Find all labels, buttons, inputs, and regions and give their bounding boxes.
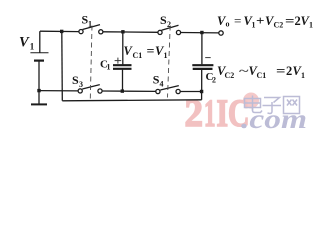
svg-text:.com: .com <box>241 104 307 134</box>
svg-text:S: S <box>160 13 167 27</box>
svg-text:C1: C1 <box>257 71 267 80</box>
svg-text:C2: C2 <box>274 21 284 30</box>
svg-text:1: 1 <box>88 20 92 29</box>
svg-text:1: 1 <box>204 92 216 135</box>
svg-text:I: I <box>217 92 229 135</box>
svg-text:2: 2 <box>167 20 171 29</box>
svg-text:1: 1 <box>252 21 256 30</box>
svg-text:3: 3 <box>79 80 83 89</box>
svg-text:1: 1 <box>107 63 111 72</box>
svg-text:1: 1 <box>30 42 35 52</box>
svg-text:1: 1 <box>164 51 168 60</box>
svg-text:=: = <box>285 14 295 28</box>
svg-text:o: o <box>226 20 230 29</box>
svg-text:1: 1 <box>309 21 313 30</box>
svg-text:S: S <box>72 73 79 87</box>
svg-text:=: = <box>147 44 155 58</box>
svg-text:2: 2 <box>185 92 204 135</box>
svg-text:=: = <box>276 64 286 78</box>
svg-text:1: 1 <box>301 71 305 80</box>
svg-text:2: 2 <box>286 64 292 78</box>
svg-text:=: = <box>234 14 242 28</box>
svg-text:+: + <box>256 14 265 28</box>
svg-text:4: 4 <box>160 79 164 88</box>
svg-text:2: 2 <box>212 76 216 85</box>
svg-text:V: V <box>19 35 30 51</box>
svg-text:C1: C1 <box>133 51 143 60</box>
svg-text:C2: C2 <box>225 71 235 80</box>
